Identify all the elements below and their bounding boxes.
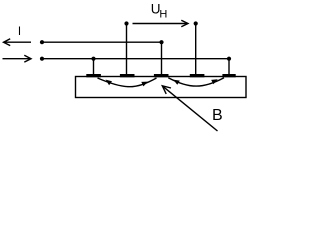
label U_H (151, 1, 168, 20)
arrow B (points up-left to plate) (162, 86, 217, 131)
contact pad 4 (190, 74, 205, 77)
arrowhead on arc2 toward pad5 (211, 79, 218, 84)
node: lower terminal (40, 57, 44, 61)
node: junction above pad5 (227, 57, 231, 61)
wire: upper horizontal (terminal to pad3 vertical) (42, 41, 162, 43)
svg-text:H: H (159, 9, 167, 21)
current path arc pad1-pad3 (98, 78, 157, 87)
node: junction above pad1 (91, 57, 95, 61)
current path arc pad3-pad5 (168, 78, 224, 86)
plate body (76, 77, 247, 98)
svg-text:I: I (18, 25, 21, 38)
node: U_H right (194, 21, 198, 25)
contact pad 1 (86, 74, 101, 77)
node: junction above pad3 (159, 40, 163, 44)
wire: vertical to pad 5 (228, 59, 230, 75)
node: upper terminal (40, 40, 44, 44)
contact pad 5 (222, 74, 235, 77)
node: U_H left (124, 21, 128, 25)
wire: vertical to pad 2 (126, 24, 128, 76)
arrowhead on arc1 toward pad3 (141, 82, 148, 87)
svg-text:B: B (212, 107, 223, 124)
arrow I lower (points right) (3, 55, 32, 62)
wire: vertical to pad 4 (195, 24, 197, 76)
wire: vertical to pad 1 (93, 59, 95, 75)
arrowhead on arc1 toward pad1 (106, 80, 112, 86)
arrow I upper (points left) (4, 39, 32, 46)
wire: vertical to pad 3 (161, 42, 163, 75)
arrow U_H (points right) (133, 20, 189, 27)
wire: lower horizontal (terminal to pad5 vertical) (42, 58, 229, 60)
contact pad 2 (120, 74, 135, 77)
arrowhead on arc2 toward pad3 (173, 80, 180, 85)
contact pad 3 (154, 74, 169, 77)
